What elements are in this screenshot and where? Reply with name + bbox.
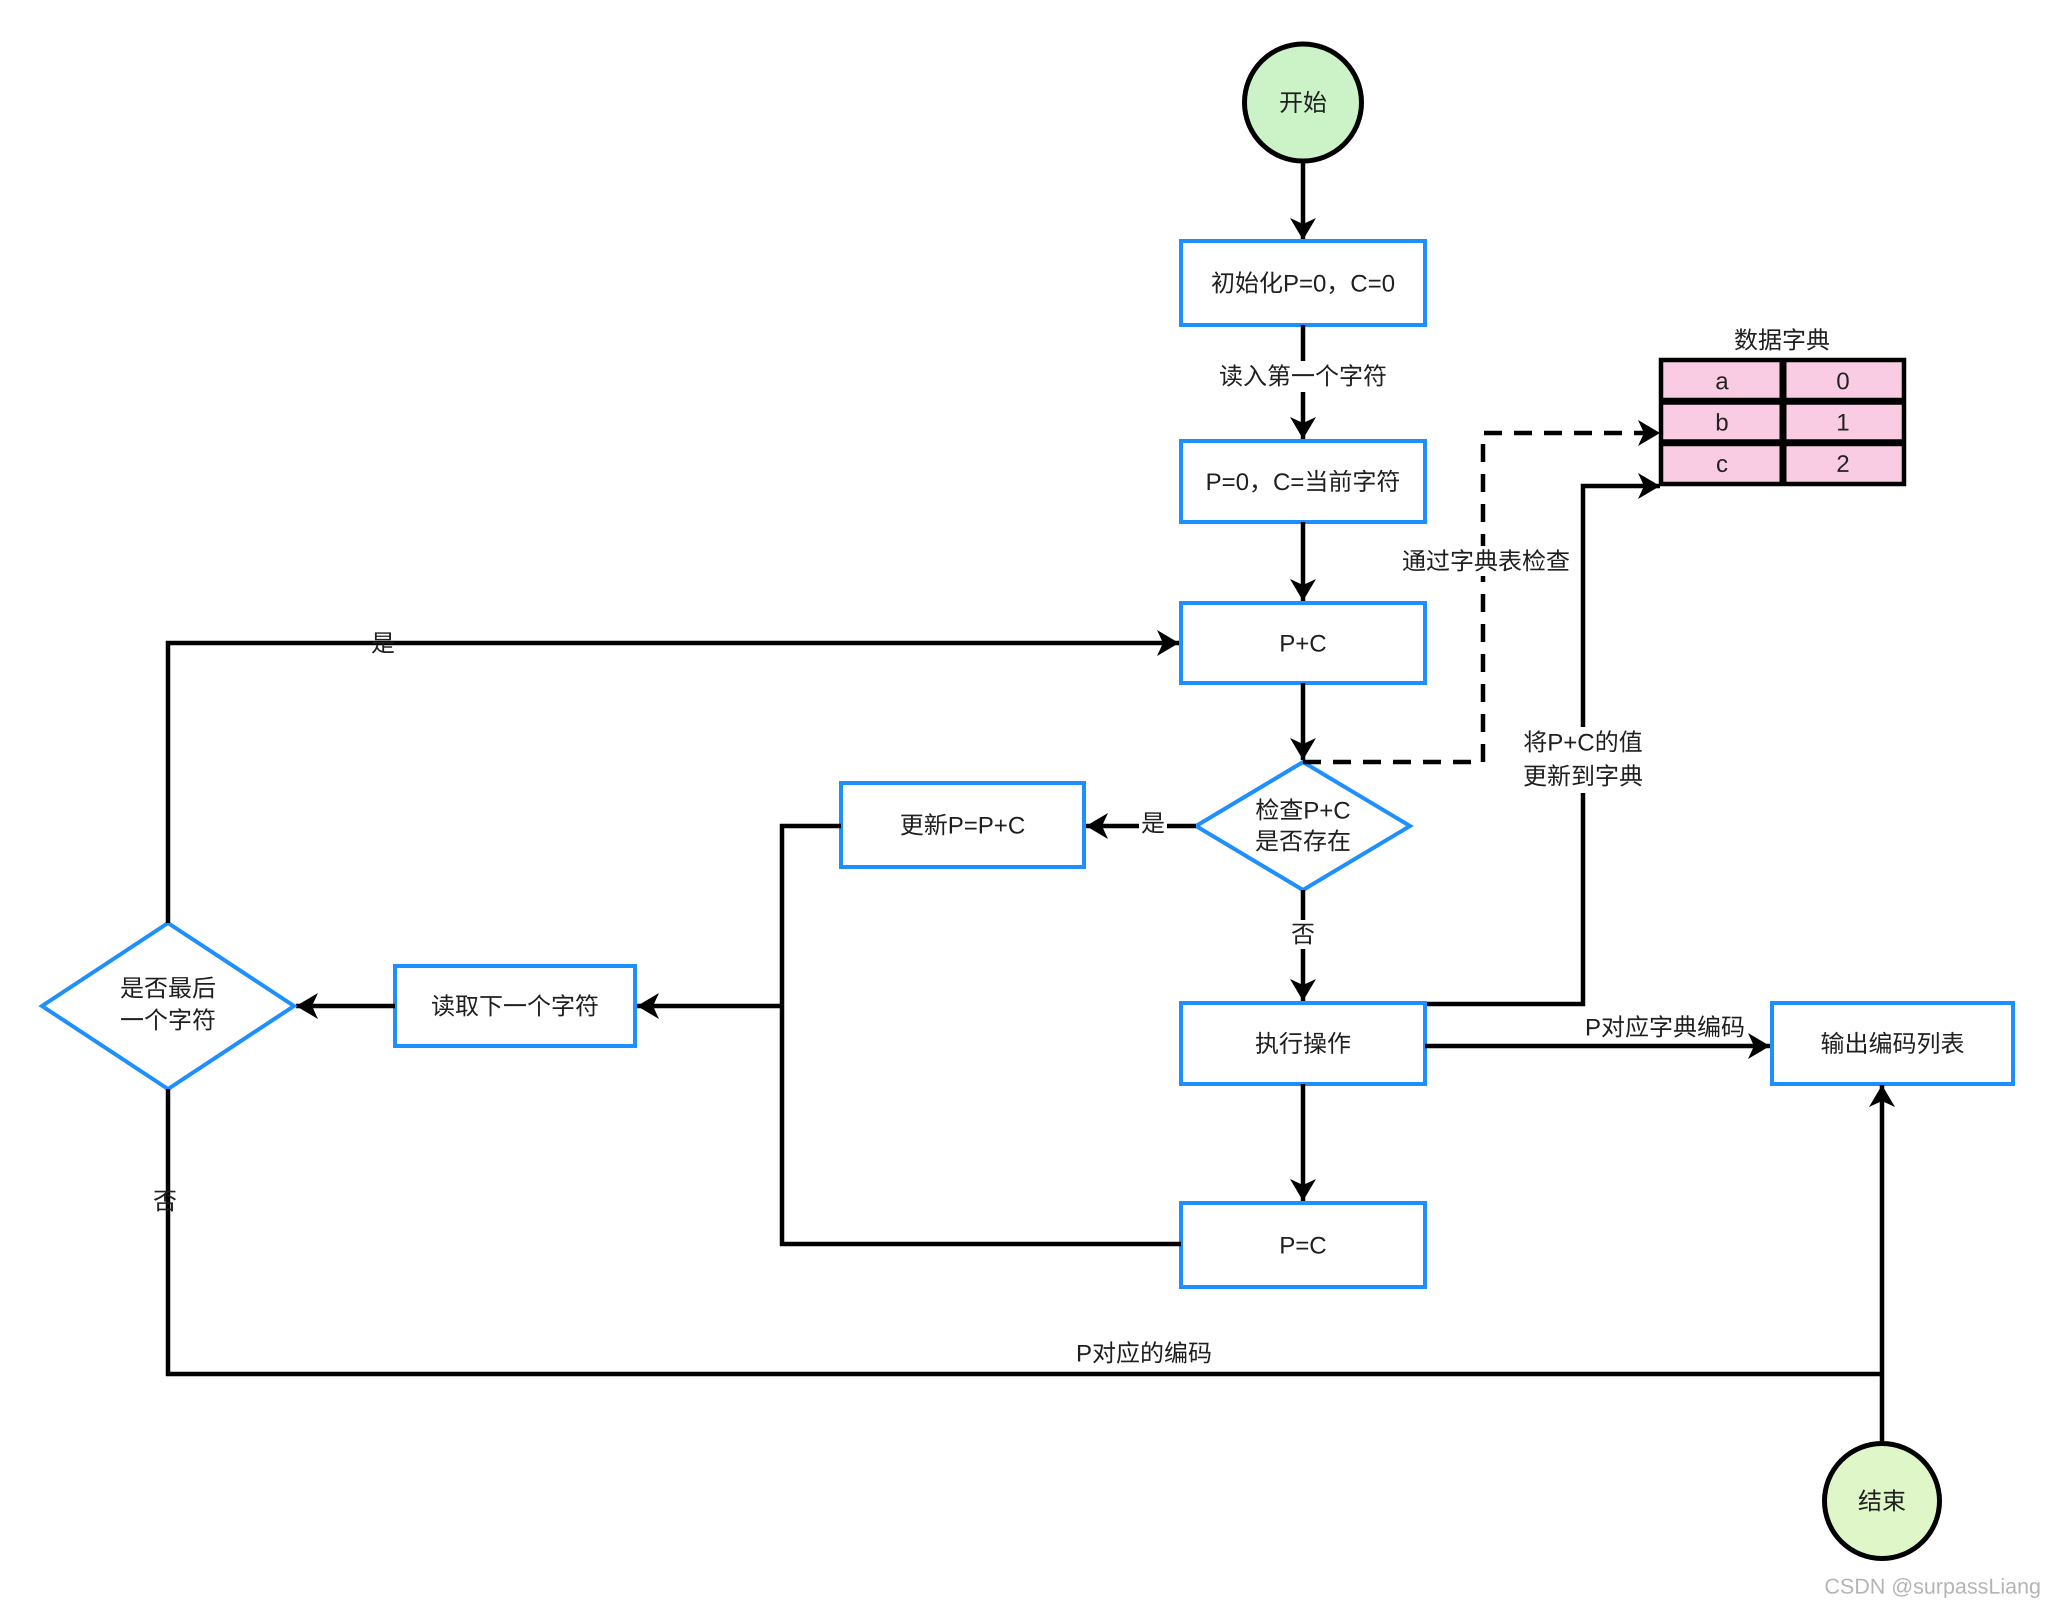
wire 读取下一个字符 to last-char diamond [296, 1004, 395, 1009]
wire start to init box [1301, 164, 1306, 241]
data dictionary title 数据字典 [1735, 328, 1829, 350]
data dictionary table (a0 b1 c2) [1661, 360, 1904, 484]
wire diamond yes to 更新P=P+C [1086, 824, 1196, 829]
edge label 是 (loop back) [372, 632, 394, 653]
process box 读取下一个字符 [395, 966, 635, 1046]
start terminator 开始 [1245, 44, 1362, 161]
wire P+C box to decision diamond [1301, 683, 1306, 760]
wire diamond no to 执行操作 [1301, 890, 1306, 1001]
edge label 是 (diamond to update) [1139, 809, 1167, 838]
wire 执行操作 to 输出编码列表 [1425, 1044, 1770, 1049]
wire junction to 读取下一个字符 [637, 1004, 782, 1009]
edge label 通过字典表检查 [1399, 546, 1573, 576]
process box P=0，C=当前字符 [1181, 441, 1425, 522]
wire 执行操作 to P=C [1301, 1084, 1306, 1201]
wire up into 输出编码列表 [1880, 1085, 1885, 1441]
edge label P对应的编码 [1078, 1341, 1211, 1363]
edge label 将P+C的值 更新到字典 [1509, 727, 1657, 793]
wire 执行操作 to dictionary (update) [1424, 486, 1660, 1004]
process box P+C [1181, 603, 1425, 683]
process box 执行操作 [1181, 1003, 1425, 1084]
process box 更新P=P+C [841, 783, 1084, 867]
edge label P对应字典编码 [1587, 1015, 1744, 1037]
wire assign box to P+C box [1301, 522, 1306, 601]
wire last-char yes to P+C [168, 643, 1179, 923]
end terminator 结束 [1825, 1444, 1940, 1559]
dashed wire diamond to dictionary (check) [1303, 433, 1660, 762]
edge label 读入第一个字符 [1216, 361, 1390, 392]
decision diamond 是否最后一个字符 [42, 923, 294, 1089]
watermark CSDN @surpassLiang [1825, 1578, 2039, 1598]
process box 初始化P=0，C=0 [1181, 241, 1425, 325]
process box 输出编码列表 [1772, 1003, 2013, 1084]
edge label 否 (last-char no) [154, 1191, 176, 1212]
wire init box to assign box [1301, 325, 1306, 439]
wire 更新P=P+C / P=C to junction [782, 826, 1181, 1244]
edge label 否 (diamond to execute) [1289, 920, 1317, 949]
decision diamond 检查P+C是否存在 [1196, 762, 1410, 890]
wire last-char no to end junction [168, 1089, 1882, 1374]
process box P=C [1181, 1203, 1425, 1287]
